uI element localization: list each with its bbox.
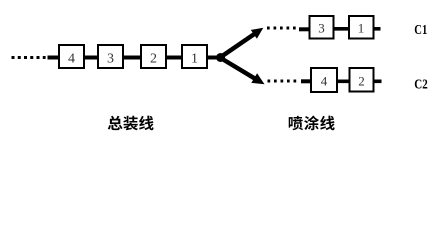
svg-text:1: 1	[358, 21, 365, 36]
wire: upper box3-box1 connector	[333, 27, 350, 31]
box: main line station 2	[141, 45, 166, 68]
svg-text:C2: C2	[414, 76, 428, 91]
wire: left dotted feed line	[12, 56, 46, 59]
wire: solid segment into box 4	[48, 56, 61, 60]
box: main line station 1	[182, 45, 207, 68]
label: 总装线 (assembly line)	[108, 116, 154, 131]
wire: box2-box1 connector	[165, 56, 184, 60]
svg-text:C1: C1	[414, 22, 427, 37]
svg-text:4: 4	[68, 52, 75, 67]
wire: box1 to junction	[206, 56, 219, 60]
label: 喷涂线 (paint line)	[289, 116, 335, 131]
wire: stub after upper box 1	[373, 27, 381, 31]
wire: box4-box3 connector	[83, 56, 100, 60]
svg-text:1: 1	[191, 52, 198, 67]
wire: solid segment into upper box 3	[299, 27, 310, 31]
box: main line station 4	[59, 45, 84, 68]
wire: solid segment into lower box 4	[301, 79, 312, 83]
box: paint line C1 station 3	[310, 16, 334, 39]
box: paint line C1 station 1	[349, 16, 374, 39]
wire: upper dotted segment	[267, 27, 298, 30]
wire: lower box4-box2 connector	[336, 80, 351, 84]
box: main line station 3	[98, 45, 123, 68]
wire: lower dotted segment	[268, 80, 301, 83]
wire: lower branch arrow	[222, 59, 256, 80]
svg-text:2: 2	[150, 52, 157, 67]
svg-text:3: 3	[107, 52, 114, 67]
box: paint line C2 station 2	[350, 68, 374, 92]
wire: upper branch arrow	[222, 33, 256, 56]
svg-text:3: 3	[318, 21, 325, 36]
svg-text:2: 2	[358, 74, 365, 89]
node: split junction dot	[216, 53, 225, 62]
box: paint line C2 station 4	[311, 68, 337, 92]
svg-text:4: 4	[321, 74, 328, 89]
wire: box3-box2 connector	[122, 56, 143, 60]
wire: stub after lower box 2	[373, 80, 382, 84]
